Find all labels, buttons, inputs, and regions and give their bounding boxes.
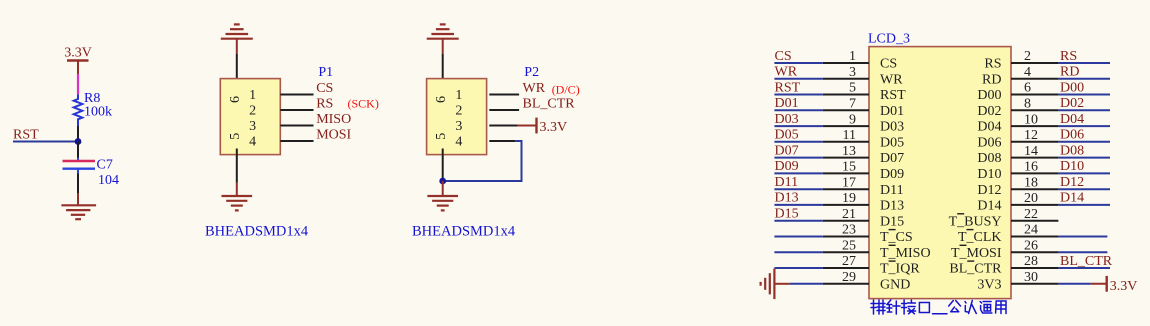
wire net D07 (pin 13)	[774, 157, 822, 159]
svg-text:(D/C): (D/C)	[552, 83, 580, 97]
wire pin 29 to ground	[790, 283, 823, 285]
wire net D08 (pin 14)	[1058, 157, 1110, 159]
svg-text:D10: D10	[1060, 159, 1084, 174]
overline on T_CS	[889, 229, 896, 231]
svg-text:P2: P2	[524, 65, 539, 80]
wire net BL_CTR (pin 28)	[1058, 267, 1110, 269]
svg-text:24: 24	[1024, 223, 1038, 238]
pin 6 (D00) of LCD_3	[1011, 94, 1058, 96]
svg-text:C7: C7	[97, 158, 113, 173]
pin 4 (RD) of LCD_3	[1011, 78, 1058, 80]
ground (left circuit)	[61, 193, 96, 219]
svg-text:T_BUSY: T_BUSY	[949, 214, 1002, 229]
svg-text:CS: CS	[316, 81, 333, 96]
svg-text:D15: D15	[775, 207, 799, 222]
wire net CS (pin 1)	[774, 62, 822, 64]
wire net D12 (pin 18)	[1058, 188, 1110, 190]
svg-text:D05: D05	[775, 128, 799, 143]
pin 10 (D04) of LCD_3	[1011, 125, 1058, 127]
svg-text:17: 17	[842, 175, 856, 190]
svg-text:27: 27	[842, 254, 856, 269]
overline on T_MISO	[889, 244, 896, 246]
svg-text:D09: D09	[880, 167, 904, 182]
pin 18 (D12) of LCD_3	[1011, 188, 1058, 190]
svg-text:D04: D04	[977, 120, 1001, 135]
svg-text:7: 7	[849, 97, 856, 112]
wire ground to P2 pin 6	[442, 54, 444, 84]
svg-text:D01: D01	[775, 96, 799, 111]
svg-text:T_IQR: T_IQR	[880, 262, 920, 277]
capacitor C7	[63, 161, 96, 169]
wire net D15 (pin 21)	[774, 220, 822, 222]
wire net nc (pin 25)	[774, 251, 822, 253]
wire net D14 (pin 20)	[1058, 204, 1110, 206]
svg-text:BHEADSMD1x4: BHEADSMD1x4	[205, 224, 309, 240]
svg-text:1: 1	[249, 88, 256, 103]
overline on T_MOSI	[960, 244, 967, 246]
wire P2 pin 4 loop to ground node	[443, 141, 522, 181]
pin 24 (T_CLK) of LCD_3	[1011, 236, 1058, 238]
pin 1 line of P2	[489, 94, 519, 96]
wire net D11 (pin 17)	[774, 188, 822, 190]
svg-text:15: 15	[842, 160, 856, 175]
wire P1 pin 5 to ground	[236, 149, 238, 183]
svg-text:D03: D03	[880, 120, 904, 135]
pin 1 line of P1	[280, 94, 313, 96]
svg-text:3: 3	[249, 119, 256, 134]
wire 3.3V to R8 (magenta net wire)	[77, 74, 79, 94]
svg-text:25: 25	[842, 238, 856, 253]
pin 3 line of P1	[280, 125, 313, 127]
pin 4 line of P2	[489, 140, 515, 142]
svg-text:5: 5	[434, 133, 449, 140]
svg-text:10: 10	[1024, 112, 1038, 127]
pin 21 (D15) of LCD_3	[823, 220, 869, 222]
svg-text:100k: 100k	[84, 105, 112, 120]
svg-text:29: 29	[842, 270, 856, 285]
svg-text:D06: D06	[977, 135, 1001, 150]
svg-text:11: 11	[843, 128, 856, 143]
svg-text:MOSI: MOSI	[316, 127, 351, 142]
svg-text:P1: P1	[318, 65, 333, 80]
svg-text:CS: CS	[775, 49, 792, 64]
svg-text:D12: D12	[977, 183, 1001, 198]
pin 3 (WR) of LCD_3	[823, 78, 869, 80]
pin 26 (T_MOSI) of LCD_3	[1011, 251, 1058, 253]
wire net D06 (pin 12)	[1058, 141, 1110, 143]
pin 13 (D07) of LCD_3	[823, 157, 869, 159]
svg-text:T_MOSI: T_MOSI	[951, 246, 1002, 261]
svg-text:6: 6	[1024, 81, 1031, 96]
svg-text:1: 1	[455, 88, 462, 103]
pin 25 (T_MISO) of LCD_3	[823, 251, 869, 253]
ground (LCD_3 pin 29, rotated)	[761, 269, 790, 300]
svg-text:D13: D13	[880, 199, 904, 214]
overline on T_CLK	[967, 229, 974, 231]
svg-text:3: 3	[455, 119, 462, 134]
pin 16 (D10) of LCD_3	[1011, 172, 1058, 174]
svg-text:D08: D08	[977, 151, 1001, 166]
svg-text:104: 104	[98, 173, 119, 188]
svg-text:BHEADSMD1x4: BHEADSMD1x4	[412, 224, 516, 240]
power port 3.3V (P2 pin 3)	[518, 118, 567, 136]
overline on BL_CTR	[967, 260, 974, 262]
wire net D01 (pin 7)	[774, 109, 822, 111]
pin 20 (D14) of LCD_3	[1011, 204, 1058, 206]
wire net nc (pin 24)	[1058, 236, 1107, 238]
svg-text:28: 28	[1024, 254, 1038, 269]
svg-text:12: 12	[1024, 128, 1038, 143]
pin 3 line of P2	[489, 125, 518, 127]
svg-text:5: 5	[849, 81, 856, 96]
overline on T_IQR	[889, 260, 896, 262]
ground (top of P1, pin 6)	[221, 24, 253, 54]
pin 30 (3V3) of LCD_3	[1011, 283, 1058, 285]
wire net WR (pin 3)	[774, 78, 822, 80]
svg-text:D04: D04	[1060, 112, 1084, 127]
pin 14 (D08) of LCD_3	[1011, 157, 1058, 159]
wire ground to P1 pin 6	[236, 54, 238, 84]
svg-text:(SCK): (SCK)	[348, 97, 379, 111]
svg-text:GND: GND	[880, 277, 910, 292]
svg-text:D10: D10	[977, 167, 1001, 182]
wire net D02 (pin 8)	[1058, 109, 1110, 111]
svg-text:13: 13	[842, 144, 856, 159]
svg-text:D06: D06	[1060, 128, 1084, 143]
svg-text:2: 2	[249, 104, 256, 119]
wire net RST	[13, 141, 78, 143]
wire pin 30 to 3.3V	[1058, 283, 1090, 285]
svg-text:19: 19	[842, 191, 856, 206]
svg-text:BL_CTR: BL_CTR	[523, 96, 576, 111]
wire net D00 (pin 6)	[1058, 94, 1110, 96]
power port 3.3V (top left)	[64, 46, 92, 75]
pin 27 (T_IQR) of LCD_3	[823, 267, 869, 269]
svg-text:2: 2	[455, 104, 462, 119]
pin 11 (D05) of LCD_3	[823, 141, 869, 143]
svg-text:3.3V: 3.3V	[64, 46, 92, 61]
svg-text:4: 4	[1024, 65, 1031, 80]
svg-text:D03: D03	[775, 112, 799, 127]
svg-text:RD: RD	[1060, 65, 1079, 80]
pin 2 line of P2	[489, 109, 519, 111]
svg-text:D08: D08	[1060, 143, 1084, 158]
svg-text:8: 8	[1024, 97, 1031, 112]
pin 7 (D01) of LCD_3	[823, 109, 869, 111]
svg-text:21: 21	[842, 207, 856, 222]
pin 2 (RS) of LCD_3	[1011, 62, 1058, 64]
svg-text:4: 4	[249, 135, 256, 150]
wire net nc (pin 23)	[774, 236, 822, 238]
ground (bottom of P2)	[427, 181, 458, 210]
svg-text:T_MISO: T_MISO	[880, 246, 931, 261]
svg-text:4: 4	[455, 135, 462, 150]
svg-text:1: 1	[849, 49, 856, 64]
svg-text:20: 20	[1024, 191, 1038, 206]
svg-text:18: 18	[1024, 175, 1038, 190]
svg-text:D15: D15	[880, 214, 904, 229]
svg-text:30: 30	[1024, 270, 1038, 285]
component LCD_3 body	[869, 47, 1011, 299]
comment text 排针接口__公认通用 (simplified drawn glyphs)	[871, 300, 1006, 314]
svg-text:BL_CTR: BL_CTR	[1060, 254, 1113, 269]
svg-text:RS: RS	[984, 57, 1001, 72]
svg-text:D00: D00	[1060, 80, 1084, 95]
wire R8 to node RST	[77, 126, 79, 142]
ground (bottom of P1)	[222, 183, 253, 211]
wire net D13 (pin 19)	[774, 204, 822, 206]
svg-text:26: 26	[1024, 238, 1038, 253]
wire net D09 (pin 15)	[774, 172, 822, 174]
svg-text:D11: D11	[880, 183, 904, 198]
svg-text:23: 23	[842, 223, 856, 238]
svg-text:6: 6	[228, 96, 243, 103]
pin 17 (D11) of LCD_3	[823, 188, 869, 190]
svg-text:D02: D02	[977, 104, 1001, 119]
svg-text:2: 2	[1024, 49, 1031, 64]
wire net D04 (pin 10)	[1058, 125, 1110, 127]
wire net D05 (pin 11)	[774, 141, 822, 143]
connector P2 body	[427, 79, 487, 155]
svg-text:16: 16	[1024, 160, 1038, 175]
pin 1 (CS) of LCD_3	[823, 62, 869, 64]
svg-text:D02: D02	[1060, 96, 1084, 111]
pin 5 (RST) of LCD_3	[823, 94, 869, 96]
svg-text:D14: D14	[977, 199, 1001, 214]
pin 23 (T_CS) of LCD_3	[823, 236, 869, 238]
svg-text:RS: RS	[316, 96, 333, 111]
pin 2 line of P1	[280, 109, 313, 111]
resistor R8	[74, 94, 83, 126]
svg-text:RS: RS	[1060, 49, 1077, 64]
ground (top of P2, pin 6)	[427, 24, 459, 54]
svg-text:D00: D00	[977, 88, 1001, 103]
wire P2 pin 5 to ground node	[442, 149, 444, 182]
pin 15 (D09) of LCD_3	[823, 172, 869, 174]
svg-text:3: 3	[849, 65, 856, 80]
pin 22 (T_BUSY) of LCD_3	[1011, 220, 1058, 222]
svg-text:5: 5	[228, 133, 243, 140]
wire net nc (pin 26)	[1058, 251, 1107, 253]
pin 9 (D03) of LCD_3	[823, 125, 869, 127]
svg-text:9: 9	[849, 112, 856, 127]
wire node to C7	[77, 142, 79, 158]
svg-text:T_CLK: T_CLK	[958, 230, 1002, 245]
pin 8 (D02) of LCD_3	[1011, 109, 1058, 111]
pin 29 (GND) of LCD_3	[823, 283, 869, 285]
svg-text:RST: RST	[880, 88, 906, 103]
svg-text:D01: D01	[880, 104, 904, 119]
svg-text:D07: D07	[880, 151, 904, 166]
svg-text:WR: WR	[523, 81, 546, 96]
svg-text:BL_CTR: BL_CTR	[949, 262, 1002, 277]
svg-text:T_CS: T_CS	[880, 230, 913, 245]
wire net RS (pin 2)	[1058, 62, 1110, 64]
pin 19 (D13) of LCD_3	[823, 204, 869, 206]
svg-text:LCD_3: LCD_3	[868, 32, 910, 47]
pin 12 (D06) of LCD_3	[1011, 141, 1058, 143]
svg-text:D13: D13	[775, 191, 799, 206]
svg-text:22: 22	[1024, 207, 1038, 222]
wire net nc (pin 27)	[774, 267, 822, 269]
svg-text:3V3: 3V3	[977, 277, 1001, 292]
capacitor C7 top lead	[77, 158, 79, 161]
svg-text:D07: D07	[775, 143, 799, 158]
svg-text:14: 14	[1024, 144, 1038, 159]
svg-text:RST: RST	[13, 128, 39, 143]
capacitor C7 bottom lead	[77, 170, 79, 174]
wire net D03 (pin 9)	[774, 125, 822, 127]
svg-text:WR: WR	[880, 72, 903, 87]
svg-text:MISO: MISO	[316, 112, 351, 127]
svg-text:D12: D12	[1060, 175, 1084, 190]
svg-text:D05: D05	[880, 135, 904, 150]
connector P1 body	[220, 79, 280, 155]
wire net D10 (pin 16)	[1058, 172, 1110, 174]
svg-text:RST: RST	[775, 80, 801, 95]
svg-text:WR: WR	[775, 65, 798, 80]
svg-text:RD: RD	[982, 72, 1001, 87]
pin 4 line of P1	[280, 140, 313, 142]
svg-text:D11: D11	[775, 175, 799, 190]
svg-text:CS: CS	[880, 57, 897, 72]
svg-text:D14: D14	[1060, 191, 1084, 206]
svg-text:3.3V: 3.3V	[1110, 279, 1138, 294]
junction node RST/R8/C7	[75, 138, 82, 145]
power port 3.3V (LCD_3 pin 30)	[1091, 276, 1138, 294]
wire C7 to ground	[77, 174, 79, 194]
svg-text:D09: D09	[775, 159, 799, 174]
wire net RD (pin 4)	[1058, 78, 1110, 80]
junction node P2 ground	[439, 178, 446, 185]
svg-text:6: 6	[434, 96, 449, 103]
pin 28 (BL_CTR) of LCD_3	[1011, 267, 1058, 269]
overline on T_BUSY	[957, 213, 964, 215]
wire net RST (pin 5)	[774, 94, 822, 96]
svg-text:3.3V: 3.3V	[540, 120, 568, 135]
